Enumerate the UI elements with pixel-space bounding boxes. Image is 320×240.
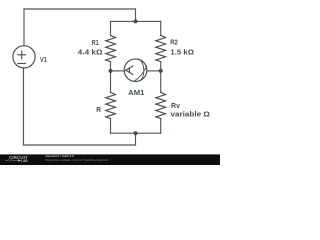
svg-text:R: R bbox=[96, 107, 101, 114]
wire battery bottom lead bbox=[23, 68, 25, 145]
voltage source V1 minus sign bbox=[18, 63, 26, 65]
wire R bottom lead bbox=[110, 119, 112, 134]
ammeter AM1 letter A rotated bbox=[126, 66, 133, 74]
wire middle-right node down to Rv bbox=[160, 71, 162, 93]
wire bridge bottom horizontal bbox=[111, 132, 161, 134]
node middle-left junction bbox=[109, 69, 113, 73]
footer bar bbox=[0, 154, 220, 165]
svg-text:http:∕∕circuitlab.com∕c7wuf6cv: http:∕∕circuitlab.com∕c7wuf6cv0ykx2∕ bbox=[45, 158, 109, 162]
ammeter AM1 dial arc bbox=[139, 59, 144, 80]
node bottom junction bbox=[134, 131, 138, 135]
logo arrow triangle bbox=[18, 159, 21, 161]
wire bottom return horizontal bbox=[24, 144, 136, 146]
resistor R bbox=[106, 92, 116, 118]
svg-text:xiaoshov / lab2 2.3: xiaoshov / lab2 2.3 bbox=[45, 154, 74, 158]
svg-text:R1: R1 bbox=[92, 40, 99, 47]
svg-text:LAB: LAB bbox=[21, 159, 28, 163]
wire ammeter right bbox=[147, 70, 161, 72]
wire battery top lead bbox=[23, 9, 25, 46]
voltage source V1 plus sign bbox=[18, 51, 26, 59]
wire R1 top lead bbox=[110, 21, 112, 35]
svg-text:variable Ω: variable Ω bbox=[171, 112, 211, 119]
wire R2 bottom lead to middle-right node bbox=[160, 62, 162, 71]
wire R1 bottom lead to middle-left node bbox=[110, 62, 112, 71]
voltage source V1 circle bbox=[13, 46, 35, 68]
svg-text:1.5 kΩ: 1.5 kΩ bbox=[170, 49, 194, 56]
wire ammeter left bbox=[111, 70, 125, 72]
wire drop to bridge top node bbox=[135, 9, 137, 21]
svg-text:AM1: AM1 bbox=[128, 90, 144, 97]
resistor R1 bbox=[106, 35, 116, 61]
wire bottom node stub down bbox=[135, 133, 137, 145]
node top junction bbox=[134, 19, 138, 23]
ammeter AM1 needle arc bbox=[134, 66, 147, 81]
svg-text:R2: R2 bbox=[170, 40, 178, 47]
wire R2 top lead bbox=[160, 21, 162, 35]
wire middle-left node down to R bbox=[110, 71, 112, 93]
wire top horizontal bbox=[24, 8, 136, 10]
node middle-right junction bbox=[159, 69, 163, 73]
logo resistor doodle bbox=[5, 159, 18, 161]
ammeter AM1 circle bbox=[124, 59, 147, 82]
svg-text:V1: V1 bbox=[40, 57, 47, 64]
resistor Rv bbox=[156, 92, 166, 118]
resistor R2 bbox=[156, 35, 166, 61]
svg-text:4.4 kΩ: 4.4 kΩ bbox=[78, 49, 103, 56]
svg-text:Rv: Rv bbox=[171, 103, 180, 110]
wire bridge top horizontal bbox=[111, 20, 161, 22]
wire Rv bottom lead bbox=[160, 119, 162, 134]
